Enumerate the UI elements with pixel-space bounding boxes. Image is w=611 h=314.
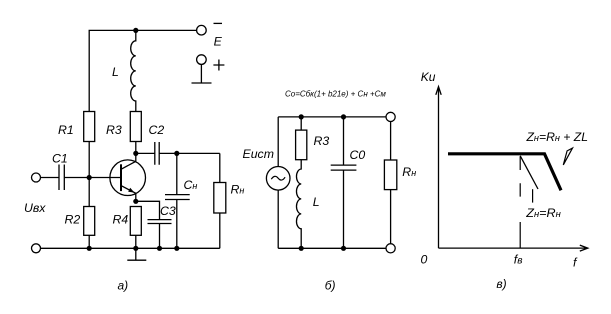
svg-text:Zн=Rн: Zн=Rн [525,206,561,220]
source Eist circle [266,167,290,191]
wire top to R3 (b) [300,117,302,130]
wire C2 to right rail [159,152,220,154]
svg-text:Cн: Cн [184,178,198,192]
svg-text:Zн=Rн + ZL: Zн=Rн + ZL [525,130,588,144]
svg-text:Rн: Rн [231,182,245,196]
svg-text:L: L [112,65,119,79]
bottom terminal (a) [32,244,41,253]
emitter arrowhead [128,188,134,193]
wire C0 branch upper (b) [343,117,345,165]
svg-text:Ku: Ku [421,70,436,84]
inductor L (b) [296,160,301,249]
wire collector to C2 [136,152,155,154]
minus sign [214,22,223,24]
capacitor Cn [165,195,190,200]
wire bottom rail (b) [278,247,386,249]
svg-text:R3: R3 [106,123,122,137]
wire top rail (a) [89,30,196,111]
wire left rail lower (b) [277,190,279,248]
node top R3 (b) [299,114,304,119]
resistor Rn (b) [384,160,396,190]
capacitor C0 [331,165,357,170]
svg-text:в): в) [496,277,506,291]
svg-text:E: E [214,34,223,48]
svg-text:Co=Cбк(1+ b21e) + Cн +Cм: Co=Cбк(1+ b21e) + Cн +Cм [285,89,386,98]
curve thick response ZL [448,154,561,191]
node base junction [87,175,92,180]
transistor base bar [120,164,122,191]
svg-text:L: L [313,195,320,209]
resistor R3 (a) [130,112,141,142]
svg-text:Uвх: Uвх [24,201,46,215]
dashed line second [532,189,534,202]
axis X (v) [439,245,588,251]
wire C3 to bottom rail [159,224,161,249]
svg-text:R3: R3 [314,134,330,148]
svg-text:б): б) [325,278,336,292]
resistor R3 (b) [296,130,307,160]
node bottom C3 [157,246,162,251]
wire R4 to bottom rail [135,235,137,248]
wire top rail (b) [278,116,386,118]
wire left rail upper (b) [277,117,279,167]
chassis ground at E+ [192,65,212,84]
wire input to C1 [41,177,60,179]
capacitor C1 [59,165,64,191]
input terminal Uvx [32,173,41,182]
node bottom R3 (b) [299,246,304,251]
transistor collector lead [121,153,136,169]
svg-text:а): а) [118,278,129,292]
plus sign [213,60,224,71]
wire C1 to transistor base [64,177,120,179]
svg-text:C0: C0 [350,148,366,162]
terminal top right (b) [386,112,395,121]
wire output node down to Cn [176,153,178,194]
node top C0 (b) [341,114,346,119]
wire Cn to bottom rail [176,200,178,249]
node bottom R2 [87,246,92,251]
terminal bottom right (b) [386,244,395,253]
svg-text:fв: fв [514,252,523,266]
node emitter junction [133,199,138,204]
svg-text:C3: C3 [160,204,176,218]
svg-text:Rн: Rн [402,165,416,179]
svg-text:Eист: Eист [243,147,274,161]
inductor L (a) [131,30,136,111]
resistor R4 [130,207,141,236]
wire R2 to bottom rail [88,235,90,248]
svg-text:C1: C1 [52,152,68,166]
pointer arrow (v) [563,148,572,165]
wire bottom rail (a) [41,247,220,249]
axis Y (v) [436,87,441,249]
wire right rail upper (b) [390,122,392,161]
terminal E minus [197,25,207,35]
node collector junction [133,151,138,156]
node top junction (a) [133,28,138,33]
transistor emitter lead [121,186,136,202]
chassis ground bottom (a) [127,248,146,260]
wire right rail down to Rn (a) [219,153,221,182]
svg-text:0: 0 [421,252,428,266]
node bottom C0 (b) [341,246,346,251]
capacitor C2 [155,142,159,165]
svg-text:R2: R2 [65,213,81,227]
svg-text:f: f [573,256,578,270]
node bottom Cn [174,246,179,251]
source sine wave [271,176,285,180]
wire C0 branch lower (b) [343,170,345,248]
wire right rail lower (b) [390,190,392,244]
svg-text:R4: R4 [113,213,129,227]
resistor R1 [84,112,95,142]
node output junction [174,151,179,156]
svg-text:R1: R1 [58,123,74,137]
resistor R2 [84,207,95,236]
terminal E plus [197,55,207,65]
wire R1 to base node [88,142,90,207]
resistor Rn (a) [214,183,226,214]
transistor VT circle [110,160,146,196]
node bottom R4 [133,246,138,251]
capacitor C3 [148,220,172,224]
wire R3 to collector node [135,142,137,154]
wire emitter to C3 [136,201,160,219]
wire Rn to bottom rail (a) [219,213,221,248]
svg-text:C2: C2 [149,123,165,137]
dashed line fv [519,157,521,249]
curve thin response Rn [520,156,538,189]
